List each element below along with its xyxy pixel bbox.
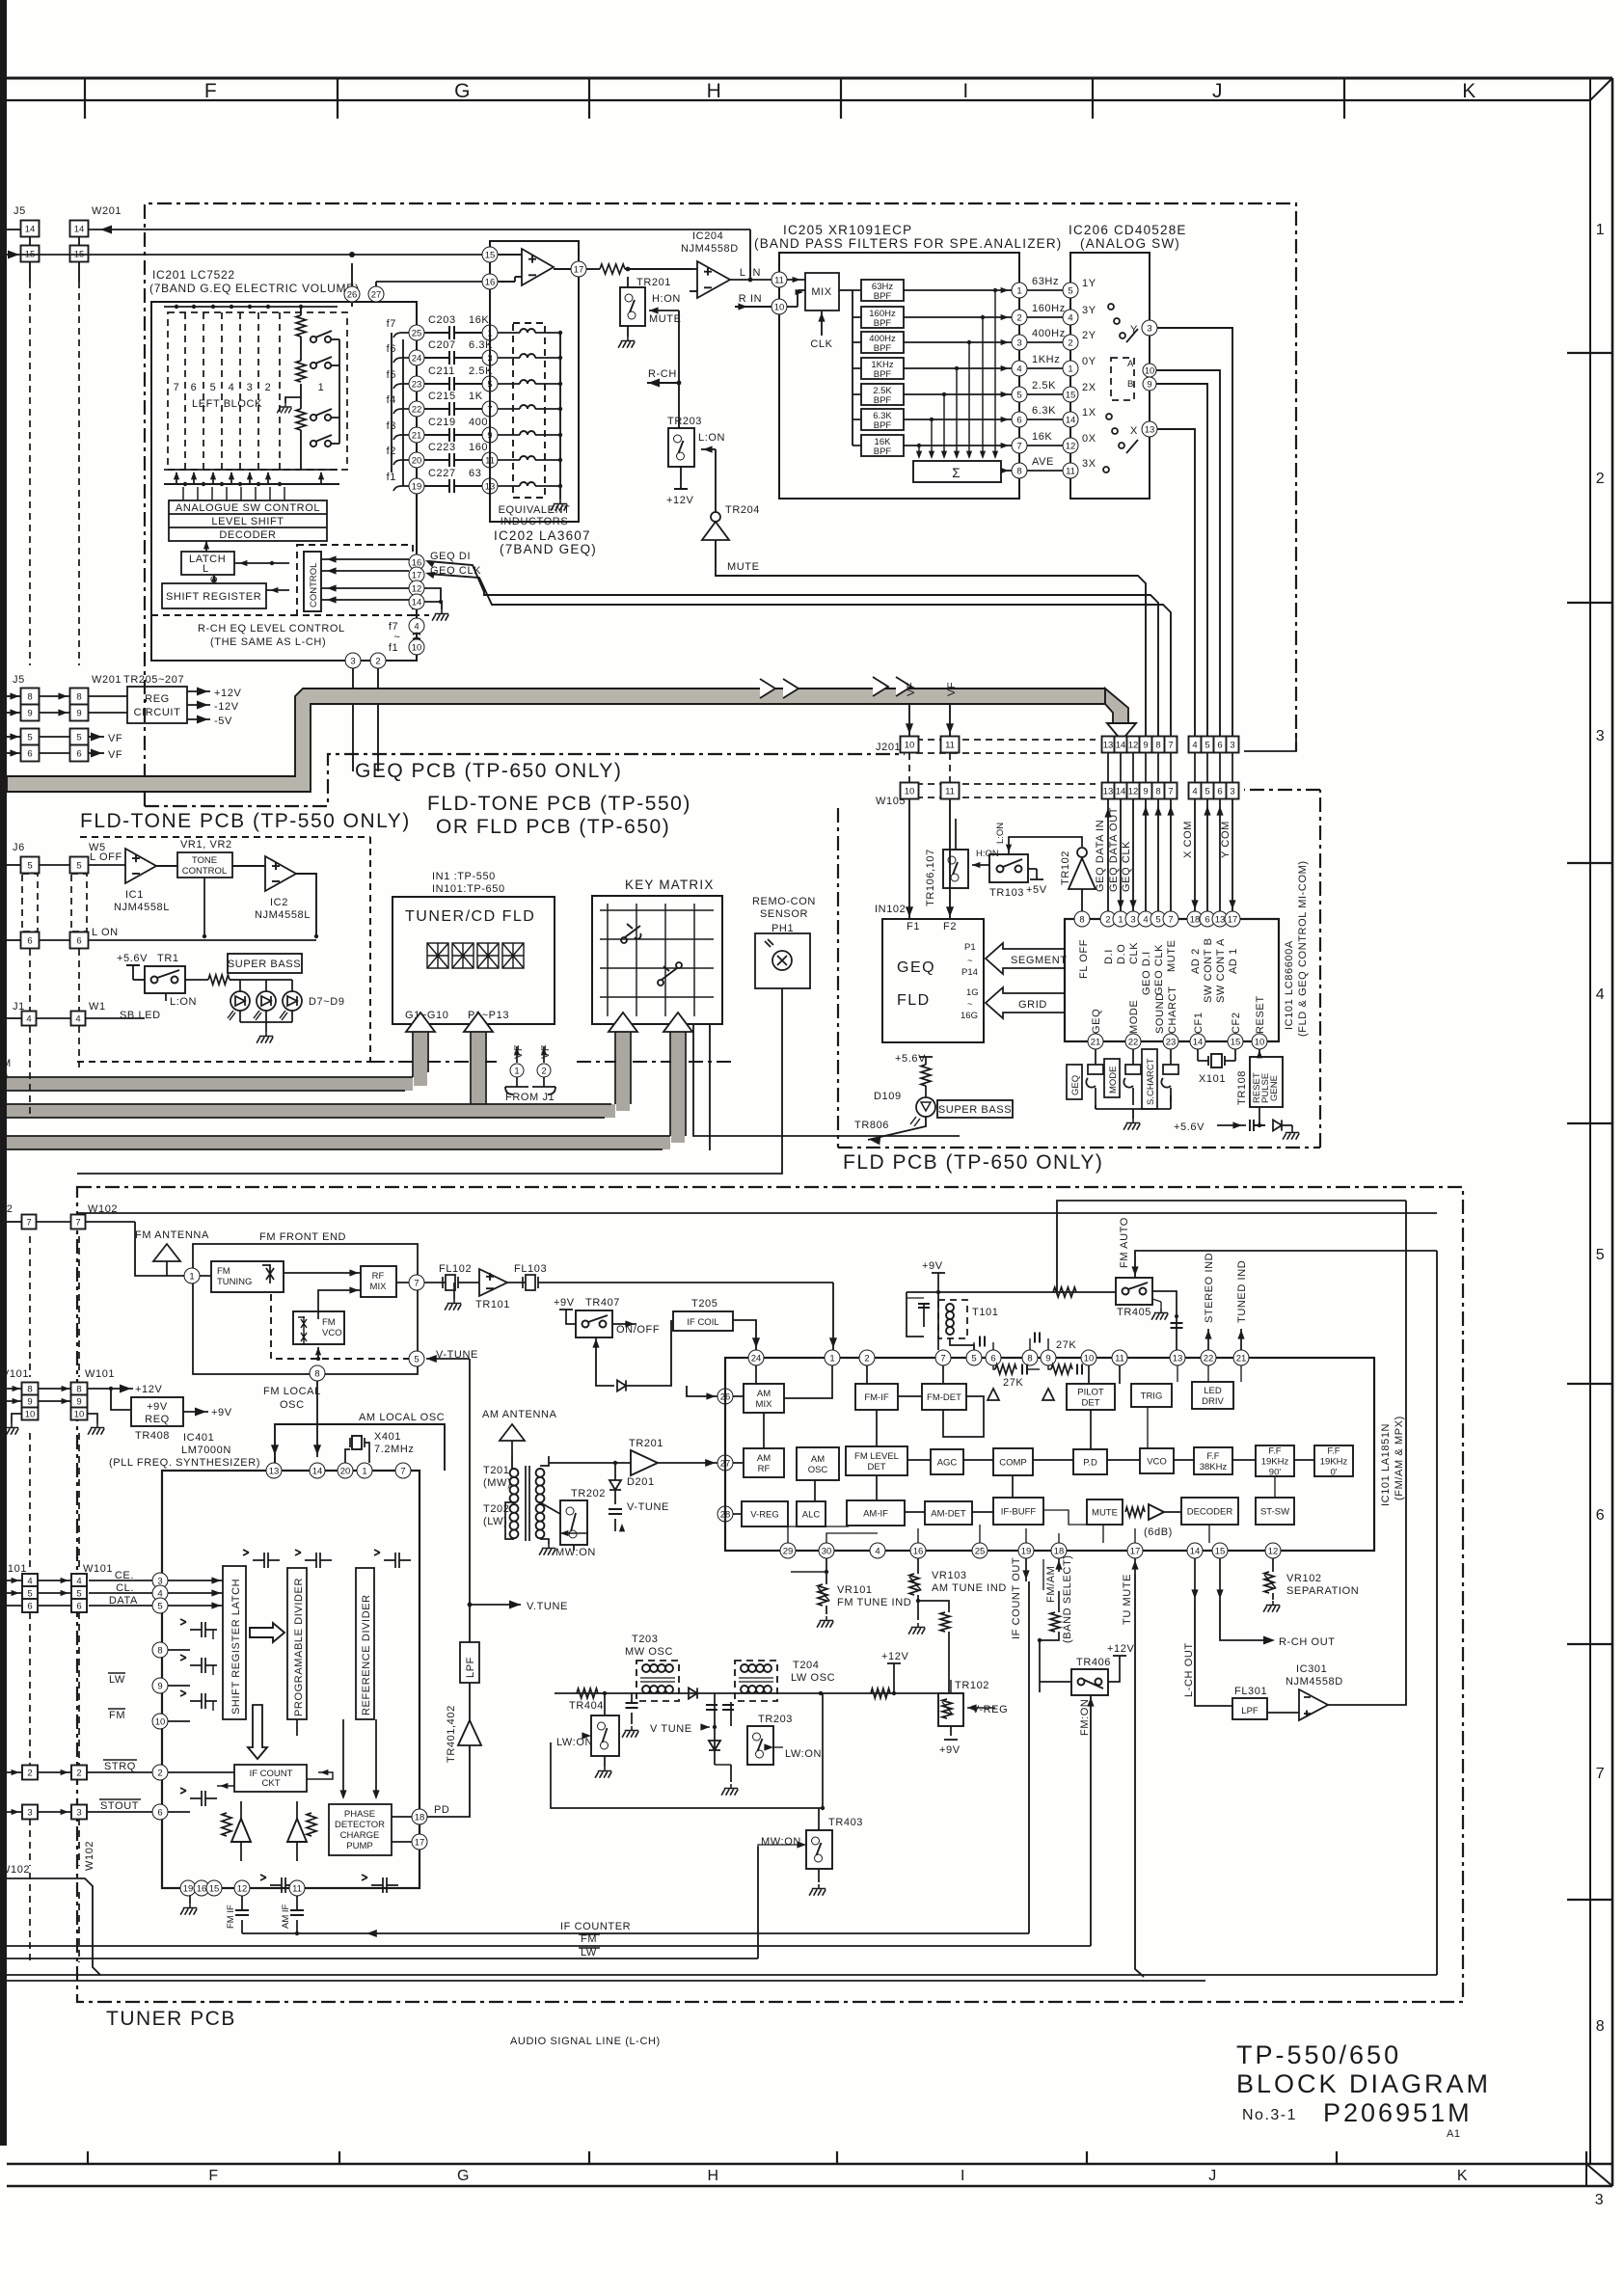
- svg-text:10: 10: [412, 642, 422, 653]
- svg-text:2: 2: [375, 656, 380, 666]
- svg-text:3: 3: [1130, 914, 1135, 925]
- svg-text:S.CHARCT: S.CHARCT: [1146, 1058, 1156, 1105]
- svg-text:1: 1: [1118, 914, 1123, 925]
- svg-text:GEQ DI: GEQ DI: [430, 551, 471, 562]
- svg-text:TR406: TR406: [1076, 1657, 1111, 1668]
- IC206 pin 15 2X: [1027, 393, 1063, 395]
- RESET PULSE GENE box: [1250, 1057, 1283, 1107]
- svg-text:NJM4558D: NJM4558D: [1286, 1676, 1343, 1688]
- svg-text:RF: RF: [372, 1271, 385, 1282]
- svg-text:4: 4: [75, 1014, 80, 1025]
- thin pair from PH1/KEY to FLD PCB: [693, 1024, 960, 1136]
- svg-text:6: 6: [1596, 1507, 1606, 1524]
- svg-text:f4: f4: [387, 394, 396, 406]
- svg-text:1: 1: [189, 1271, 194, 1282]
- svg-text:SUPER BASS: SUPER BASS: [938, 1104, 1012, 1116]
- svg-text:14: 14: [412, 597, 422, 608]
- svg-text:LW: LW: [581, 1947, 597, 1958]
- svg-text:CIRCUIT: CIRCUIT: [134, 707, 181, 718]
- wire pin14 ground: [424, 602, 442, 609]
- svg-text:2: 2: [265, 382, 272, 393]
- svg-text:16: 16: [913, 1546, 924, 1556]
- svg-text:VCO: VCO: [1147, 1457, 1167, 1468]
- svg-text:3: 3: [247, 382, 254, 393]
- svg-text:0Y: 0Y: [1082, 356, 1096, 367]
- svg-text:13: 13: [269, 1466, 280, 1476]
- svg-text:FM: FM: [322, 1317, 336, 1328]
- svg-text:RESET: RESET: [1255, 995, 1266, 1034]
- svg-text:FM LOCAL: FM LOCAL: [263, 1386, 321, 1397]
- svg-text:30: 30: [822, 1546, 832, 1556]
- svg-text:AGC: AGC: [937, 1458, 958, 1469]
- svg-text:2: 2: [1596, 471, 1606, 487]
- W101 grounds: [12, 1414, 22, 1423]
- svg-text:5: 5: [971, 1353, 976, 1364]
- sigma tap lines: [918, 446, 920, 457]
- svg-text:11: 11: [945, 741, 955, 751]
- svg-text:2: 2: [1068, 338, 1072, 348]
- svg-text:BPF: BPF: [874, 395, 892, 406]
- LEDs D7~D9: [230, 991, 250, 1011]
- svg-text:29: 29: [783, 1546, 794, 1556]
- pin 28: [717, 1506, 733, 1522]
- svg-text:I: I: [962, 80, 969, 102]
- svg-text:IC201 LC7522: IC201 LC7522: [152, 268, 235, 282]
- svg-text:V.TUNE: V.TUNE: [527, 1601, 568, 1612]
- svg-text:4: 4: [1192, 741, 1197, 751]
- svg-text:D201: D201: [627, 1476, 655, 1488]
- svg-text:LEFT BLOCK: LEFT BLOCK: [192, 398, 262, 410]
- BPF 400Hz box / pin 3: [861, 332, 904, 353]
- W105-J201 dashed ties: [909, 753, 950, 782]
- svg-text:TR401,402: TR401,402: [446, 1705, 457, 1763]
- svg-text:REFERENCE DIVIDER: REFERENCE DIVIDER: [361, 1594, 372, 1715]
- svg-text:STOUT: STOUT: [100, 1800, 139, 1812]
- LA1851 blocks row1: [744, 1384, 784, 1413]
- svg-text:L:ON: L:ON: [995, 823, 1006, 844]
- svg-text:f5: f5: [387, 369, 396, 381]
- svg-text:LPF: LPF: [1241, 1706, 1259, 1716]
- wire FL103 to LA1851 pin 1: [832, 1283, 834, 1350]
- LATCH box: [181, 552, 234, 575]
- svg-text:5: 5: [1204, 741, 1209, 751]
- IC201 pin 24 / cap C207 6.3K / IC202 pin 3: [409, 350, 424, 365]
- svg-text:GEQ PCB (TP-650 ONLY): GEQ PCB (TP-650 ONLY): [355, 760, 622, 782]
- svg-text:3: 3: [76, 1808, 81, 1819]
- svg-text:GRID: GRID: [1018, 999, 1047, 1011]
- svg-text:LW:ON: LW:ON: [556, 1737, 593, 1748]
- svg-text:15: 15: [485, 250, 496, 260]
- IC401 internal mosfets: [180, 1619, 217, 1637]
- svg-text:INDUCTORS: INDUCTORS: [501, 516, 569, 527]
- svg-text:FLD-TONE PCB (TP-550): FLD-TONE PCB (TP-550): [427, 793, 691, 815]
- V-TUNE dashed feed: [271, 1294, 409, 1359]
- IC401 internal buffers: [231, 1819, 251, 1842]
- IC206 pin 2 2Y: [1027, 341, 1063, 343]
- svg-text:DECODER: DECODER: [219, 529, 276, 541]
- svg-text:19: 19: [183, 1883, 194, 1894]
- svg-text:13: 13: [1215, 914, 1226, 925]
- svg-text:LW: LW: [109, 1674, 125, 1686]
- svg-text:8: 8: [157, 1645, 162, 1656]
- TR203 switch: [678, 383, 680, 428]
- svg-text:W201: W201: [92, 205, 122, 217]
- svg-text:VF: VF: [906, 682, 917, 696]
- IC206 pin 1 0Y: [1027, 367, 1063, 369]
- svg-text:K: K: [1462, 80, 1477, 102]
- svg-text:W201: W201: [92, 674, 122, 686]
- svg-text:5: 5: [76, 733, 81, 743]
- svg-text:16: 16: [485, 277, 496, 287]
- svg-text:8: 8: [76, 1385, 81, 1395]
- svg-text:TR205~207: TR205~207: [123, 674, 184, 686]
- IC101 LC86600A box: [1065, 919, 1279, 1041]
- svg-text:AM: AM: [757, 1389, 771, 1399]
- svg-text:12: 12: [237, 1883, 248, 1894]
- diode to IF coil line: [617, 1380, 626, 1391]
- svg-text:9: 9: [1045, 1353, 1050, 1364]
- +12V from W101-8: [87, 1388, 111, 1390]
- wire IF coil to pin 24: [733, 1320, 756, 1350]
- svg-text:A1: A1: [1447, 2128, 1461, 2140]
- svg-text:X COM: X COM: [1182, 821, 1194, 858]
- svg-text:8: 8: [1016, 466, 1021, 476]
- svg-text:3: 3: [350, 656, 355, 666]
- svg-text:P14: P14: [961, 967, 978, 978]
- svg-text:63Hz: 63Hz: [1032, 276, 1059, 287]
- svg-text:FL OFF: FL OFF: [1078, 939, 1090, 979]
- svg-text:SEPARATION: SEPARATION: [1286, 1585, 1359, 1597]
- pin 5: [409, 1351, 424, 1366]
- top internal rail: [77, 1212, 1437, 1214]
- svg-text:f3: f3: [387, 420, 396, 432]
- svg-text:SHIFT REGISTER LATCH: SHIFT REGISTER LATCH: [230, 1579, 242, 1715]
- svg-text:6: 6: [27, 1602, 32, 1612]
- svg-text:AD 1: AD 1: [1228, 948, 1239, 974]
- svg-text:DETECTOR: DETECTOR: [335, 1820, 385, 1830]
- svg-text:X401: X401: [374, 1431, 401, 1443]
- svg-text:+12V: +12V: [666, 495, 693, 506]
- bus crossing chevrons: [760, 677, 911, 698]
- svg-text:GENE: GENE: [1269, 1075, 1280, 1101]
- REG CIRCUIT box: [127, 687, 187, 723]
- IC202 LA3607 box: [490, 241, 579, 522]
- svg-text:9: 9: [1143, 741, 1148, 751]
- svg-text:CONTROL: CONTROL: [182, 866, 227, 877]
- svg-text:X: X: [1130, 425, 1138, 437]
- svg-text:BPF: BPF: [874, 343, 892, 354]
- svg-text:17: 17: [574, 264, 584, 275]
- svg-text:14: 14: [1193, 1037, 1204, 1047]
- svg-text:6: 6: [1217, 787, 1222, 797]
- svg-text:PROGRAMABLE DIVIDER: PROGRAMABLE DIVIDER: [293, 1578, 305, 1716]
- connector column dashes: [30, 282, 79, 665]
- main shaded bus from J5 to J201: [7, 689, 1105, 792]
- svg-text:No.3-1: No.3-1: [1242, 2107, 1297, 2123]
- svg-text:VF: VF: [946, 682, 958, 696]
- IC201 pin 19 / cap C227 63 / IC202 pin 13: [409, 478, 424, 494]
- inductor row pin 5: [498, 383, 520, 385]
- svg-text:P1: P1: [964, 942, 976, 953]
- svg-text:IC202 LA3607: IC202 LA3607: [494, 528, 591, 543]
- svg-text:8: 8: [1079, 914, 1084, 925]
- wire to pin 26: [687, 1386, 717, 1396]
- svg-text:4: 4: [229, 382, 235, 393]
- svg-text:+9V: +9V: [922, 1260, 943, 1272]
- IC201 R-CH dashed divider: [151, 614, 429, 616]
- svg-text:2X: 2X: [1082, 382, 1096, 393]
- svg-text:14: 14: [1066, 415, 1076, 425]
- top ruler band: [7, 77, 1612, 80]
- svg-text:5: 5: [27, 1589, 32, 1600]
- svg-text:FL301: FL301: [1234, 1686, 1267, 1697]
- pin 11 L IN: [771, 272, 787, 287]
- MODE key switch: [1104, 1059, 1120, 1097]
- svg-text:16K: 16K: [469, 314, 489, 326]
- IC206 switch contacts: [1103, 304, 1138, 473]
- svg-text:LM7000N: LM7000N: [181, 1445, 231, 1456]
- pin 15: [482, 247, 498, 262]
- svg-text:21: 21: [412, 430, 422, 441]
- svg-text:18: 18: [415, 1812, 425, 1823]
- CONTROL box (vertical): [297, 545, 413, 615]
- svg-text:L:ON: L:ON: [698, 432, 725, 444]
- pin 18 PD: [412, 1809, 427, 1824]
- svg-text:10: 10: [1145, 365, 1155, 376]
- svg-text:(PLL FREQ. SYNTHESIZER): (PLL FREQ. SYNTHESIZER): [109, 1457, 260, 1469]
- svg-text:23: 23: [412, 379, 422, 390]
- svg-text:27K: 27K: [1003, 1377, 1023, 1389]
- svg-text:L:ON: L:ON: [170, 996, 197, 1008]
- svg-text:19: 19: [412, 481, 422, 492]
- pin 27: [368, 286, 384, 302]
- svg-text:F.F: F.F: [1327, 1446, 1340, 1457]
- GEQ FLD box: [882, 919, 984, 1042]
- svg-text:17: 17: [412, 570, 422, 581]
- svg-text:DET: DET: [868, 1462, 886, 1472]
- svg-text:14: 14: [312, 1466, 323, 1476]
- svg-text:9: 9: [1147, 379, 1151, 390]
- svg-text:CHARGE: CHARGE: [340, 1830, 380, 1841]
- reference divider box: [356, 1568, 374, 1719]
- V-TUNE long drop: [469, 1359, 471, 1605]
- svg-text:16G: 16G: [961, 1011, 978, 1021]
- pin 2 bottom: [370, 653, 386, 668]
- svg-text:7: 7: [1168, 741, 1173, 751]
- pin 8: [310, 1365, 325, 1381]
- inductor row pin 7: [498, 408, 520, 410]
- BPF 1KHz box / pin 4: [861, 358, 904, 379]
- svg-text:5: 5: [157, 1601, 162, 1611]
- svg-text:22: 22: [412, 404, 422, 415]
- pin 14: [409, 594, 424, 609]
- svg-text:CF2: CF2: [1231, 1012, 1242, 1034]
- svg-text:FLD-TONE PCB (TP-550 ONLY): FLD-TONE PCB (TP-550 ONLY): [80, 810, 411, 832]
- MIX output bus: [839, 289, 853, 291]
- svg-text:-5V: -5V: [214, 716, 232, 727]
- arrows into J5 mid: [7, 695, 20, 697]
- svg-text:+5V: +5V: [1026, 884, 1047, 896]
- svg-text:TR203: TR203: [758, 1714, 793, 1725]
- wire latch feed: [234, 562, 289, 564]
- svg-text:R IN: R IN: [739, 293, 762, 305]
- svg-text:TR201: TR201: [629, 1438, 663, 1449]
- BPF 63Hz box / pin 1: [861, 280, 904, 301]
- svg-text:J5: J5: [14, 205, 26, 217]
- X401 crystal 7.2MHz: [345, 1449, 350, 1463]
- svg-text:5: 5: [27, 861, 32, 872]
- svg-text:FM: FM: [217, 1266, 230, 1277]
- MIX box: [805, 273, 839, 311]
- svg-text:1: 1: [1596, 222, 1606, 238]
- svg-text:(7BAND G.EQ ELECTRIC VOLUME): (7BAND G.EQ ELECTRIC VOLUME): [149, 282, 360, 295]
- svg-text:C207: C207: [428, 339, 456, 351]
- svg-text:0X: 0X: [1082, 433, 1096, 445]
- svg-text:11: 11: [1115, 1353, 1124, 1364]
- svg-text:GEQ: GEQ: [1070, 1075, 1081, 1095]
- IC201 box: [151, 302, 417, 661]
- svg-text:16: 16: [197, 1883, 207, 1894]
- IC201 inner top rail: [164, 306, 338, 308]
- LW:ON loop wire: [551, 1693, 823, 1808]
- svg-text:4: 4: [27, 1577, 32, 1587]
- svg-text:SUPER BASS: SUPER BASS: [228, 959, 301, 970]
- svg-text:19KHz: 19KHz: [1261, 1457, 1289, 1468]
- svg-text:1KHz: 1KHz: [1032, 354, 1060, 365]
- svg-text:IN1 :TP-550: IN1 :TP-550: [432, 871, 496, 882]
- svg-text:TR108: TR108: [1236, 1070, 1248, 1105]
- FM AUTO wire: [1135, 1251, 1437, 1278]
- +5V: [1028, 868, 1037, 870]
- svg-text:SHIFT REGISTER: SHIFT REGISTER: [166, 591, 261, 603]
- svg-text:L: L: [203, 563, 209, 575]
- svg-text:GEQ DATA IN: GEQ DATA IN: [1095, 820, 1106, 892]
- ANALOGUE SW CONTROL / LEVEL SHIFT / DECODER box: [169, 500, 327, 541]
- audio line pair: [7, 1974, 1437, 1976]
- svg-text:9: 9: [1143, 787, 1148, 797]
- svg-text:IF COIL: IF COIL: [687, 1317, 718, 1328]
- svg-text:BLOCK DIAGRAM: BLOCK DIAGRAM: [1236, 2069, 1491, 2098]
- svg-text:AM ANTENNA: AM ANTENNA: [482, 1409, 557, 1420]
- svg-text:17: 17: [415, 1837, 425, 1848]
- svg-text:4: 4: [1016, 364, 1021, 374]
- svg-text:5: 5: [76, 861, 81, 872]
- svg-text:SB LED: SB LED: [120, 1010, 161, 1021]
- svg-text:6: 6: [1016, 415, 1021, 425]
- wires pins 3,2 down to bus: [352, 668, 354, 771]
- svg-text:IC205 XR1091ECP: IC205 XR1091ECP: [783, 223, 912, 237]
- svg-text:AVE: AVE: [1032, 456, 1054, 468]
- svg-text:CLK: CLK: [1128, 942, 1140, 964]
- svg-text:VR1, VR2: VR1, VR2: [180, 839, 232, 851]
- svg-text:FM IF: FM IF: [226, 1904, 236, 1929]
- svg-text:4: 4: [875, 1546, 880, 1556]
- pin 26: [717, 1389, 733, 1404]
- svg-text:3: 3: [1595, 2192, 1605, 2208]
- svg-text:2: 2: [864, 1353, 869, 1364]
- pin f7 (4): [409, 618, 424, 634]
- R-CH OUT: [1220, 1601, 1263, 1640]
- svg-text:D7~D9: D7~D9: [309, 996, 345, 1008]
- IC401 pin bus verticals: [212, 1630, 214, 1639]
- IC201 pin 22 / cap C215 1K / IC202 pin 7: [409, 401, 424, 417]
- svg-text:C223: C223: [428, 442, 456, 453]
- wire IC204 out to L IN: [730, 279, 771, 281]
- pin 17: [571, 261, 586, 277]
- svg-text:T101: T101: [972, 1307, 998, 1318]
- svg-text:f6: f6: [387, 343, 396, 355]
- svg-text:F: F: [204, 80, 218, 102]
- svg-text:27: 27: [371, 289, 382, 300]
- svg-text:OSC: OSC: [280, 1399, 305, 1411]
- svg-text:FM/AM: FM/AM: [1045, 1566, 1057, 1603]
- IC201 pin 25 / cap C203 16K / IC202 pin 1: [409, 325, 424, 340]
- svg-text:FM ANTENNA: FM ANTENNA: [135, 1229, 209, 1241]
- svg-text:COMP: COMP: [999, 1458, 1027, 1469]
- svg-text:CF1: CF1: [1193, 1012, 1204, 1034]
- svg-text:ANALOGUE SW CONTROL: ANALOGUE SW CONTROL: [176, 502, 320, 514]
- svg-text:12: 12: [1128, 787, 1139, 797]
- svg-text:38KHz: 38KHz: [1200, 1462, 1228, 1472]
- svg-text:4: 4: [76, 1577, 81, 1587]
- svg-text:IC301: IC301: [1296, 1663, 1327, 1675]
- svg-text:ON/OFF: ON/OFF: [616, 1324, 660, 1336]
- svg-text:7: 7: [400, 1466, 405, 1476]
- svg-text:AM: AM: [757, 1453, 771, 1464]
- svg-text:BPF: BPF: [874, 291, 892, 302]
- svg-text:5: 5: [1155, 914, 1160, 925]
- PH1 box: [755, 933, 810, 988]
- bus arrow into J201: [1105, 689, 1128, 723]
- svg-text:f1: f1: [387, 472, 396, 483]
- TR405 out to pin 13: [1152, 1291, 1177, 1350]
- svg-text:TUNING: TUNING: [217, 1277, 252, 1287]
- svg-text:Y COM: Y COM: [1220, 821, 1232, 858]
- svg-text:MUTE: MUTE: [649, 313, 682, 325]
- svg-text:400Hz: 400Hz: [1032, 328, 1066, 339]
- svg-text:~: ~: [393, 632, 400, 643]
- svg-text:R-CH OUT: R-CH OUT: [1279, 1636, 1336, 1648]
- X101 crystal: [1197, 1049, 1199, 1061]
- svg-text:02: 02: [0, 1203, 13, 1215]
- AVE pin 8: [1012, 463, 1027, 478]
- svg-text:L-CH OUT: L-CH OUT: [1183, 1642, 1195, 1697]
- svg-text:25: 25: [412, 328, 422, 338]
- IC101 mi-com bottom pins: [1088, 1034, 1103, 1049]
- S.CHARCT key switch: [1142, 1049, 1157, 1109]
- svg-text:L OFF: L OFF: [90, 851, 122, 863]
- svg-text:17: 17: [1228, 914, 1238, 925]
- FLD starburst digits: [427, 943, 448, 968]
- left edge dashes bottom: [30, 1873, 79, 1962]
- svg-text:4: 4: [26, 1014, 31, 1025]
- svg-text:AM: AM: [811, 1454, 825, 1465]
- svg-text:5: 5: [210, 382, 217, 393]
- BPF 2.5K box / pin 5: [861, 384, 904, 405]
- svg-text:F.F: F.F: [1268, 1446, 1281, 1457]
- svg-text:1X: 1X: [1082, 407, 1096, 419]
- svg-text:AUDIO SIGNAL LINE (L-CH): AUDIO SIGNAL LINE (L-CH): [510, 2036, 661, 2047]
- svg-text:2: 2: [157, 1768, 162, 1778]
- svg-text:MIX: MIX: [370, 1282, 388, 1292]
- pin 16 GEQ DI: [409, 554, 424, 570]
- svg-text:W102: W102: [0, 1864, 30, 1876]
- svg-text:9: 9: [27, 1397, 32, 1408]
- svg-text:W101: W101: [85, 1368, 115, 1380]
- wires W105 to IC101 mi-com: [1107, 799, 1109, 911]
- svg-text:7: 7: [414, 1278, 419, 1288]
- svg-text:5: 5: [1068, 285, 1072, 296]
